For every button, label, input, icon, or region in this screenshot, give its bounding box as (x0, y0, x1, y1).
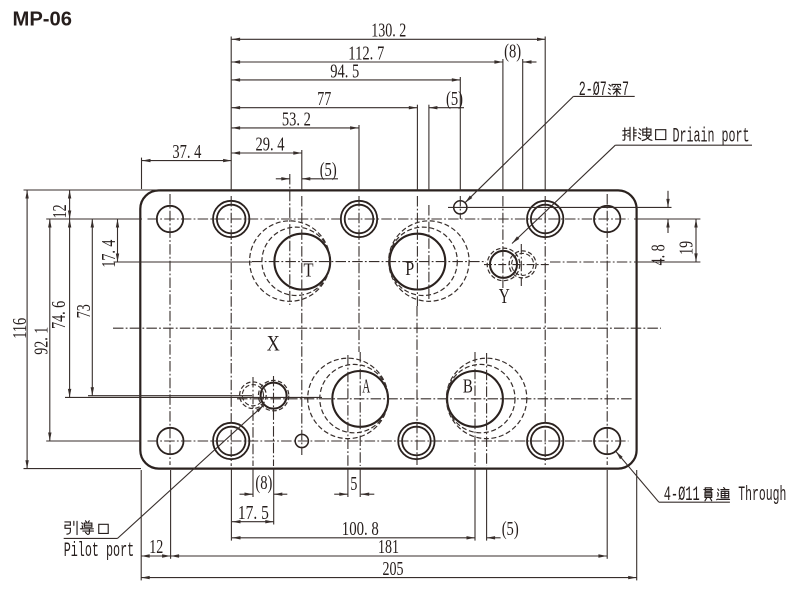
svg-text:4. 8: 4. 8 (648, 244, 670, 265)
col line right double col (544, 37, 546, 191)
dim 17.4 line (117, 219, 119, 262)
dim 53.2 line (232, 127, 359, 129)
col line right bolt ext (606, 470, 608, 559)
col line X (273, 376, 275, 466)
dim 37.4 line (142, 160, 232, 162)
svg-text:Driain port: Driain port (673, 126, 750, 149)
dim 12 bottom line (141, 555, 170, 557)
plate outline (140, 190, 636, 468)
svg-text:77: 77 (317, 88, 331, 110)
note 導 glyph (80, 521, 93, 535)
dim (5) T arrows (276, 178, 290, 180)
ext bottom row left (46, 440, 141, 442)
col line Y valve (522, 59, 524, 190)
svg-text:(8): (8) (504, 40, 521, 62)
port X solid (261, 383, 287, 409)
port P (390, 234, 446, 290)
svg-text:4-Ø11: 4-Ø11 (664, 484, 700, 507)
leader drain (615, 144, 752, 146)
ext top edge left (24, 189, 161, 191)
svg-text:116: 116 (9, 318, 31, 339)
ext Y row right (634, 261, 700, 263)
col line B valve (486, 353, 488, 466)
svg-text:29. 4: 29. 4 (256, 133, 285, 155)
port A (332, 371, 388, 427)
ext 74.6 line (65, 396, 322, 398)
col line right edge ext (636, 470, 638, 580)
dim 17.5 line (232, 521, 274, 523)
svg-text:Y: Y (499, 284, 510, 308)
svg-text:2-Ø7: 2-Ø7 (579, 79, 607, 102)
port X dashed ring (258, 380, 288, 410)
svg-text:5: 5 (350, 473, 357, 495)
note 口 glyph 2 (99, 524, 108, 533)
dim 77 line (232, 107, 418, 109)
small hole 2-Ø7 bottom (295, 434, 308, 447)
col line mid double (358, 125, 360, 190)
dim 19 line (695, 219, 697, 262)
svg-text:(5): (5) (446, 88, 463, 110)
centerline X A B row (237, 398, 633, 400)
note 排 glyph (623, 127, 636, 140)
svg-text:(8): (8) (255, 472, 272, 494)
dim (5) B arrow (487, 537, 501, 539)
leader 4-Ø11 (659, 501, 730, 503)
svg-text:92. 1: 92. 1 (30, 327, 52, 355)
note 口 glyph (656, 130, 666, 140)
svg-text:MP-06: MP-06 (13, 9, 73, 31)
col line X valve (252, 377, 254, 466)
svg-text:73: 73 (73, 304, 95, 318)
col line A (359, 352, 361, 466)
ext bottom edge left (24, 468, 142, 470)
col line P lower (416, 306, 418, 465)
bolt hole top-right (594, 206, 620, 232)
col line left bolt column (169, 194, 171, 465)
note 洩 glyph (638, 127, 651, 140)
dim 5 A arrows (334, 493, 348, 495)
dim 73 line (91, 219, 93, 396)
col line left edge ext (141, 158, 143, 189)
leader 2-Ø7 (573, 95, 634, 97)
col line ref 231 (230, 37, 232, 191)
svg-text:37. 4: 37. 4 (172, 141, 201, 163)
counterbore hole bottom-middle (398, 423, 434, 459)
counterbore hole top-middle (341, 201, 377, 237)
col line T valve (289, 174, 291, 305)
dim 100.8 line (232, 537, 475, 539)
svg-text:12: 12 (149, 536, 163, 558)
svg-text:12: 12 (49, 204, 71, 218)
note 貫 glyph (704, 488, 713, 501)
centerline bottom row (148, 440, 629, 442)
svg-text:(5): (5) (502, 518, 519, 540)
svg-text:17. 4: 17. 4 (98, 240, 120, 268)
col line T (301, 150, 303, 190)
svg-text:P: P (405, 258, 414, 280)
ext small hole right (448, 206, 672, 208)
counterbore hole top-right (527, 201, 563, 237)
svg-text:(5): (5) (320, 159, 337, 181)
dim 4.8 arrows (667, 191, 669, 208)
svg-text:130. 2: 130. 2 (371, 20, 406, 42)
svg-text:B: B (463, 376, 473, 398)
note 通 glyph (717, 488, 730, 500)
svg-text:A: A (362, 376, 370, 398)
col line A valve (347, 355, 349, 466)
svg-text:94. 5: 94. 5 (330, 60, 359, 82)
svg-text:Pilot port: Pilot port (64, 540, 135, 563)
dim (5) P arrow (429, 107, 464, 109)
ext top bolt row right (634, 218, 700, 220)
port Y valve side dashed (509, 251, 536, 278)
counterbore hole bottom-left (213, 423, 249, 459)
ext 73 line (88, 395, 252, 397)
svg-text:181: 181 (378, 536, 399, 558)
centerline T P row (252, 261, 486, 263)
dim 94.5 line (232, 79, 461, 81)
dim 116 line (26, 190, 28, 469)
bolt hole bottom-right (594, 428, 620, 454)
col line B (474, 352, 476, 466)
bolt hole bottom-left (157, 428, 183, 454)
ext 17.4 line (114, 261, 253, 263)
port Y solid (490, 251, 517, 278)
ext top bolt row left (46, 218, 142, 220)
note 深 glyph (608, 84, 620, 95)
bolt hole top-left (157, 206, 183, 232)
dim (8) top arrow (523, 61, 537, 63)
note 引 glyph (65, 521, 77, 534)
dim (8) X arrows (240, 493, 254, 495)
small hole 2-Ø7 top (454, 201, 467, 214)
dim 181 line (171, 555, 607, 557)
svg-text:7: 7 (622, 79, 629, 102)
counterbore hole top-left (213, 201, 249, 237)
col line right bolt column (606, 194, 608, 465)
col line P (416, 105, 418, 191)
port X valve side dashed (240, 382, 267, 409)
svg-text:Through: Through (738, 484, 786, 507)
leader pilot (64, 537, 118, 539)
port Y dashed ring (487, 248, 520, 281)
port B (447, 371, 503, 427)
dim 74.6 line (69, 219, 71, 397)
col line left bolt ext (170, 470, 172, 559)
dim 92.1 line (49, 219, 51, 441)
dim 12 line (69, 190, 71, 219)
centerline plate middle (113, 327, 661, 329)
svg-text:205: 205 (383, 558, 404, 580)
svg-text:53. 2: 53. 2 (282, 108, 311, 130)
svg-text:19: 19 (676, 241, 698, 255)
centerline Y crosshair (484, 264, 549, 266)
dim 29.4 line (232, 152, 302, 154)
port T (274, 234, 330, 290)
dim 205 line (141, 577, 637, 579)
svg-text:T: T (304, 259, 314, 281)
col line P valve (428, 105, 430, 191)
centerline top bolt row (148, 218, 629, 220)
svg-text:X: X (267, 330, 280, 355)
col line small hole top (459, 77, 461, 190)
svg-text:17. 5: 17. 5 (238, 502, 269, 524)
col line Y (502, 59, 504, 190)
svg-text:74. 6: 74. 6 (48, 301, 70, 329)
dim 130.2 line (232, 38, 546, 40)
centerline Y right (550, 261, 633, 263)
counterbore hole bottom-right (527, 423, 563, 459)
dim 112.7 line (232, 61, 503, 63)
svg-text:100. 8: 100. 8 (342, 518, 379, 540)
